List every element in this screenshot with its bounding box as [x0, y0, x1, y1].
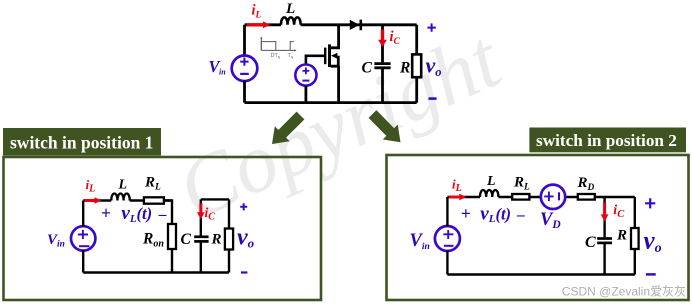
svg-text:+vL(t)–: +vL(t)–: [461, 203, 525, 225]
label minus top: [429, 97, 437, 100]
svg-text:L: L: [486, 174, 496, 189]
label minus (box2): [646, 273, 656, 276]
svg-text:+vL(t)–: +vL(t)–: [101, 203, 167, 225]
resistor R (box1): [225, 199, 233, 272]
label plus (box2): [645, 198, 655, 208]
label plus top: [427, 23, 435, 31]
svg-text:Ts: Ts: [288, 53, 294, 60]
svg-text:CSDN @Zevalin爱灰灰: CSDN @Zevalin爱灰灰: [562, 285, 686, 299]
inductor L (box1): [111, 194, 129, 201]
wire RL to Ron (box1): [164, 201, 172, 225]
svg-text:iC: iC: [390, 29, 401, 47]
wire capacitor branch: [381, 25, 384, 103]
wire CR loop top (box1): [201, 198, 229, 200]
svg-text:Vin: Vin: [47, 232, 65, 250]
frame box 2: [387, 155, 689, 300]
svg-text:switch in position 1: switch in position 1: [10, 132, 153, 152]
gate drive source: [295, 65, 316, 103]
svg-text:Ron: Ron: [142, 231, 164, 250]
capacitor C (box2): [597, 239, 612, 243]
current arrow iL (box2): [449, 194, 466, 201]
wire bottom rail (box2): [447, 273, 634, 275]
wire bottom rail (box1): [83, 271, 229, 273]
wire Ron to rail (box1): [171, 249, 173, 273]
svg-text:iL: iL: [252, 2, 262, 20]
wire left branch (box1): [82, 201, 84, 273]
svg-text:vo: vo: [644, 228, 662, 256]
svg-text:VD: VD: [540, 210, 561, 231]
current arrow iC (box2): [601, 203, 609, 222]
svg-text:iC: iC: [613, 203, 625, 220]
wire bottom rail: [245, 101, 417, 104]
gate pulse waveform: [260, 36, 296, 51]
voltage source VD (box2): [541, 185, 565, 209]
wire top rail (box2): [447, 196, 578, 198]
wire left branch upper: [243, 25, 246, 56]
green arrow left: [272, 112, 304, 144]
current arrow iL (box1): [85, 197, 102, 204]
label box: switch in position 1: [3, 128, 161, 156]
wire left branch (box2): [446, 197, 448, 275]
voltage source Vin (box1): [71, 226, 95, 250]
svg-text:RL: RL: [144, 174, 161, 192]
diode D1: [350, 20, 361, 31]
inductor L: [281, 17, 301, 24]
wire left branch lower: [243, 81, 246, 103]
watermark Copyright: [165, 12, 516, 238]
svg-text:L: L: [118, 178, 128, 193]
wire top rail: [245, 23, 417, 26]
svg-text:C: C: [181, 231, 192, 248]
svg-text:R: R: [616, 227, 627, 243]
wire C branch (box2): [603, 197, 605, 275]
transistor Q1 (MOSFET): [306, 25, 339, 103]
green arrow right: [369, 110, 401, 142]
svg-text:C: C: [362, 60, 373, 77]
svg-text:Vin: Vin: [410, 231, 430, 252]
wire top rail (box1): [83, 199, 172, 201]
resistor RL (box2): [512, 194, 529, 200]
svg-text:iL: iL: [86, 177, 96, 195]
current arrow iC (box1): [197, 204, 205, 220]
resistor RL (box1): [144, 197, 164, 203]
resistor R (box2): [631, 197, 639, 275]
wire RD to right branch (box2): [595, 196, 635, 198]
svg-text:RD: RD: [577, 175, 595, 193]
voltage source Vin: [232, 56, 258, 82]
resistor RD (box2): [578, 194, 595, 200]
svg-text:C: C: [585, 234, 596, 251]
capacitor C (box1): [194, 237, 208, 242]
resistor Ron (box1): [168, 224, 176, 249]
label box: switch in position 2: [529, 128, 686, 153]
svg-text:R: R: [399, 60, 410, 77]
svg-text:R: R: [211, 232, 222, 248]
current arrow iC: [378, 30, 387, 48]
current arrow iL: [247, 21, 270, 28]
svg-text:L: L: [285, 1, 295, 17]
svg-text:iL: iL: [452, 176, 462, 194]
label plus (box1): [240, 203, 247, 210]
voltage source Vin (box2): [435, 226, 460, 251]
svg-text:vo: vo: [237, 224, 255, 250]
svg-text:Vin: Vin: [209, 57, 227, 77]
label minus (box1): [241, 271, 247, 273]
frame box 1: [4, 157, 322, 300]
svg-text:switch in position 2: switch in position 2: [536, 131, 677, 150]
resistor R top: [412, 25, 421, 103]
capacitor C: [374, 64, 390, 68]
svg-text:DTs: DTs: [271, 53, 281, 60]
svg-text:RL: RL: [513, 175, 530, 193]
inductor L (box2): [480, 190, 498, 197]
wire C branch (box1): [200, 199, 202, 272]
